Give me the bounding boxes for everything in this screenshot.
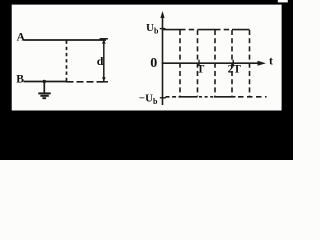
scan border: left black band bbox=[0, 0, 12, 160]
plate B line (dashed continuation) bbox=[67, 81, 104, 83]
U axis (vertical) bbox=[162, 14, 164, 106]
transition dashed line at T/2 bbox=[179, 30, 181, 97]
t axis arrowhead bbox=[258, 61, 267, 66]
scan border: right black band bbox=[282, 0, 293, 160]
scan border: top black band bbox=[0, 0, 293, 5]
plate A line bbox=[24, 39, 107, 41]
tick -U0 on U axis bbox=[160, 97, 166, 99]
paper background bbox=[0, 0, 293, 160]
t axis (horizontal) bbox=[162, 62, 259, 64]
square wave top segment 0..T/2 bbox=[163, 29, 180, 31]
scan border: bottom black band bbox=[0, 111, 293, 161]
gap dashed line between plates bbox=[66, 41, 68, 82]
square wave top segment 2T..5T/2 bbox=[232, 29, 250, 31]
ground stem wire bbox=[43, 82, 45, 93]
square wave top segment T..3T/2 bbox=[198, 29, 216, 31]
dimension line d between plates bbox=[100, 39, 108, 82]
svg-text:0: 0 bbox=[150, 56, 157, 71]
tick 2T on t axis bbox=[232, 60, 234, 66]
svg-text:2T: 2T bbox=[228, 63, 242, 75]
square wave bottom segment T/2..T bbox=[179, 96, 198, 98]
svg-text:A: A bbox=[17, 31, 26, 43]
tick +U0 on U axis bbox=[160, 28, 166, 30]
transition dashed line at 5T/2 bbox=[249, 30, 251, 97]
-U0 dashed reference 0..T/2 bbox=[166, 96, 181, 98]
svg-text:d: d bbox=[97, 54, 104, 68]
transition dashed line at 2T bbox=[231, 30, 233, 97]
scan border: white notch top-right bbox=[278, 0, 288, 2]
junction node on B wire bbox=[43, 80, 46, 83]
square wave bottom segment 3T/2..2T bbox=[214, 96, 236, 98]
plate B line (solid part) bbox=[24, 81, 67, 83]
-U0 dashed reference T..3T/2 bbox=[199, 96, 214, 98]
-U0 dashed reference tail after 2T bbox=[238, 96, 267, 98]
U axis arrowhead bbox=[160, 11, 164, 18]
transition dashed line at 3T/2 bbox=[214, 30, 216, 97]
svg-text:B: B bbox=[16, 74, 24, 86]
transition dashed line at T bbox=[197, 30, 199, 97]
svg-text:T: T bbox=[197, 63, 205, 75]
ground symbol bbox=[38, 93, 50, 98]
+U0 dashed reference 3T/2..2T bbox=[215, 29, 232, 31]
+U0 dashed reference T/2..T bbox=[180, 29, 198, 31]
tick T on t axis bbox=[198, 60, 200, 66]
svg-text:t: t bbox=[269, 53, 273, 67]
